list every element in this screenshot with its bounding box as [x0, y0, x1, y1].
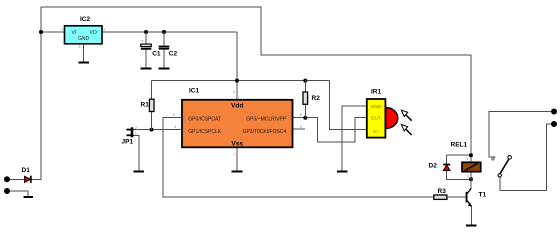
node R1 bottom junction — [150, 128, 154, 132]
svg-text:V+: V+ — [373, 129, 379, 135]
wire R2 top — [304, 81, 306, 92]
svg-text:D2: D2 — [429, 163, 438, 170]
wire D1 anode from pad — [7, 178, 25, 180]
wire D2 anode lead — [447, 170, 471, 179]
wire relay contact common from top right pad — [489, 112, 554, 158]
relay switch fixed contact left — [492, 158, 494, 160]
connector pad bottom right — [551, 121, 557, 127]
wire D1 cathode to vertical — [32, 178, 42, 180]
svg-text:T1: T1 — [479, 192, 487, 199]
resistor R2 — [303, 92, 308, 104]
wire Vdd drop — [236, 32, 238, 100]
wire C1 leads — [145, 32, 147, 44]
wire JP1 ground drop — [133, 135, 139, 171]
svg-text:Vdd: Vdd — [231, 103, 243, 110]
svg-text:GND: GND — [78, 36, 90, 42]
wire IC2 VO rail — [102, 31, 237, 33]
wire C2 bottom lead — [163, 50, 165, 69]
wire C2 top lead — [163, 32, 165, 46]
wire GP2 pin3 stub — [293, 128, 306, 130]
wire top rail from left vertical to step — [41, 6, 261, 8]
svg-text:R1: R1 — [141, 102, 150, 109]
microcontroller IC1 — [182, 100, 293, 148]
wire IC2 VI input — [41, 31, 65, 33]
voltage regulator IC2 — [65, 26, 103, 44]
node relay top junction — [469, 153, 473, 157]
ground Vss — [232, 171, 243, 173]
ground IR1 — [337, 171, 348, 173]
capacitor C2 — [159, 46, 170, 50]
wire relay contact pole to bottom right pad — [500, 124, 554, 191]
svg-text:GP3/~MCLR/VPP: GP3/~MCLR/VPP — [246, 116, 287, 122]
wire R3 to T1 base — [447, 196, 466, 198]
relay switch pole pivot — [498, 174, 501, 177]
svg-text:GP1/ICSPCLK: GP1/ICSPCLK — [188, 129, 221, 135]
svg-text:OUT: OUT — [371, 116, 381, 122]
resistor R1 — [149, 99, 154, 111]
wire IR1 GND to ground — [342, 106, 367, 172]
relay switch fixed contact right — [508, 156, 512, 160]
wire GP0 pin5 net to R3 — [163, 118, 434, 197]
capacitor C1 — [141, 38, 152, 50]
svg-text:IC1: IC1 — [189, 88, 200, 95]
wire V plus drop to IR1 — [329, 81, 366, 130]
connector pad top left — [4, 176, 10, 182]
svg-text:VI: VI — [72, 30, 77, 36]
svg-text:GND: GND — [371, 104, 382, 110]
jumper JP1 — [126, 127, 133, 137]
node Vdd rail junction — [235, 79, 239, 83]
svg-text:IC2: IC2 — [80, 16, 91, 23]
svg-text:R2: R2 — [312, 95, 321, 102]
wire Vss lead — [236, 147, 238, 171]
node R2 top junction — [303, 79, 307, 83]
node C1 junction — [144, 30, 148, 34]
node C2 junction — [162, 30, 166, 34]
node VI junction — [39, 30, 43, 34]
ground IC2 — [79, 61, 90, 63]
wire top rail right segment — [261, 54, 471, 56]
svg-text:JP1: JP1 — [122, 139, 134, 146]
wire top rail step down — [260, 7, 262, 56]
wire +5V horizontal rail — [152, 80, 330, 82]
resistor R3 — [434, 195, 447, 199]
ground lower pad — [24, 196, 34, 198]
wire R1 bottom — [151, 112, 153, 130]
wire left vertical supply — [40, 7, 42, 179]
svg-text:GP2/T0CKI/FOSC4: GP2/T0CKI/FOSC4 — [243, 129, 287, 135]
svg-text:D1: D1 — [22, 167, 31, 174]
node relay bottom junction — [469, 177, 473, 181]
node R2 bottom junction — [303, 116, 307, 120]
diode D1 — [25, 176, 31, 183]
connector pad top right — [551, 109, 557, 115]
ground T1 emitter — [466, 225, 477, 227]
connector pad bottom left — [4, 188, 10, 194]
svg-text:R3: R3 — [438, 188, 447, 195]
wire GP3 pin8 to OUT routing — [293, 118, 367, 143]
wire R1 top — [151, 81, 153, 100]
ground C1 — [141, 67, 152, 69]
wire T1 collector vertical — [470, 179, 472, 187]
svg-text:C1: C1 — [152, 51, 161, 58]
wire D2 top branch — [447, 154, 471, 156]
svg-text:Vss: Vss — [231, 140, 243, 147]
svg-text:IR1: IR1 — [371, 89, 382, 96]
svg-text:C2: C2 — [169, 51, 178, 58]
relay switch arm — [500, 159, 508, 173]
light arrow 1 — [401, 110, 411, 121]
wire D2 cathode lead — [446, 155, 448, 164]
wire relay coil bottom to T1 collector — [470, 172, 472, 180]
IR receiver IR1 — [367, 99, 398, 138]
svg-text:REL1: REL1 — [451, 142, 468, 149]
transistor T1 — [466, 188, 472, 207]
ground C2 — [159, 67, 170, 69]
light arrow 2 — [401, 125, 411, 136]
svg-text:GP0/ICSPDAT: GP0/ICSPDAT — [188, 116, 221, 122]
wire IC2 GND lead — [83, 44, 85, 62]
svg-text:VO: VO — [90, 30, 97, 36]
relay coil REL1 — [462, 162, 481, 171]
wire down to relay coil — [470, 55, 472, 163]
wire GP1 pin4 net — [134, 129, 183, 131]
diode D2 — [443, 165, 450, 171]
ground JP1 — [134, 171, 145, 173]
wire C1 bottom lead — [145, 50, 147, 69]
wire R2 bottom — [304, 105, 306, 118]
wire lower pad to ground — [7, 191, 28, 197]
wire T1 emitter vertical — [470, 207, 472, 226]
